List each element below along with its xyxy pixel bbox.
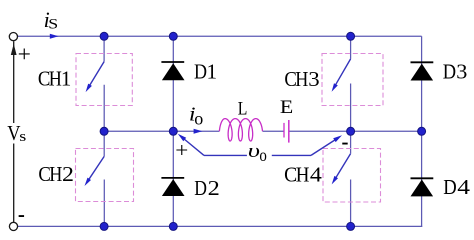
svg-text:4: 4 bbox=[457, 176, 470, 200]
svg-text:H: H bbox=[49, 68, 62, 90]
source line (black) bbox=[13, 41, 15, 222]
CH1/CH2 leg wire bbox=[103, 36, 105, 226]
CH3 switch blade bbox=[334, 59, 350, 87]
CH4 dashed box bbox=[323, 149, 381, 203]
mid rail wire bbox=[104, 130, 422, 132]
v_o right arrow bbox=[311, 139, 336, 155]
CH1 switch blade bbox=[88, 62, 104, 89]
right leg wire (D3/D4) bbox=[421, 36, 423, 226]
svg-text:2: 2 bbox=[208, 176, 220, 199]
svg-text:D: D bbox=[194, 177, 207, 200]
svg-text:2: 2 bbox=[62, 162, 74, 185]
svg-text:-: - bbox=[18, 202, 25, 227]
source E bars bbox=[284, 120, 289, 143]
bottom rail wire bbox=[18, 225, 422, 227]
junction node top CH3 leg bbox=[347, 32, 355, 40]
junction node mid rail D3/D4 leg bbox=[418, 127, 426, 135]
svg-text:3: 3 bbox=[308, 68, 320, 91]
svg-text:H: H bbox=[49, 164, 62, 186]
diode D2 bbox=[161, 178, 184, 196]
svg-text:1: 1 bbox=[207, 60, 218, 84]
svg-text:D: D bbox=[443, 176, 456, 199]
CH2 dashed box bbox=[76, 149, 134, 202]
CH1 dashed box bbox=[76, 54, 132, 106]
top rail wire bbox=[18, 35, 422, 37]
svg-text:L: L bbox=[238, 97, 248, 119]
svg-text:o: o bbox=[194, 108, 203, 128]
diode D3 bbox=[411, 62, 434, 80]
diode D4 bbox=[411, 178, 434, 196]
v_o left arrow bbox=[184, 139, 205, 156]
CH2 switch blade bbox=[87, 157, 104, 183]
svg-text:S: S bbox=[48, 15, 58, 32]
i_S arrow bbox=[50, 34, 59, 39]
svg-text:o: o bbox=[259, 145, 266, 166]
svg-text:s: s bbox=[19, 128, 26, 145]
junction node + output (mid rail, D1/D2) bbox=[169, 127, 177, 135]
junction node top CH leg bbox=[100, 32, 108, 40]
svg-text:E: E bbox=[280, 97, 293, 117]
svg-text:1: 1 bbox=[61, 68, 71, 91]
CH3/CH4 leg wire bbox=[350, 36, 352, 226]
svg-text:4: 4 bbox=[310, 163, 322, 186]
svg-text:H: H bbox=[295, 69, 308, 91]
CH4 switch blade bbox=[334, 154, 350, 181]
svg-text:υ: υ bbox=[248, 140, 260, 161]
inductor L bbox=[219, 119, 262, 141]
junction node A (mid rail, CH1/CH2) bbox=[100, 127, 108, 135]
junction node top D1 leg bbox=[169, 32, 177, 40]
CH3 dashed box bbox=[322, 54, 383, 106]
terminal - bottom left bbox=[9, 222, 17, 230]
svg-text:+: + bbox=[18, 42, 31, 68]
v_o horizontal segments bbox=[204, 154, 311, 156]
i_o arrow bbox=[194, 129, 203, 134]
junction node - output (mid rail, CH3/CH4) bbox=[347, 127, 355, 135]
diode D1 bbox=[161, 62, 184, 80]
svg-text:D: D bbox=[443, 60, 456, 83]
svg-text:H: H bbox=[296, 164, 310, 187]
source arrow up bbox=[11, 44, 17, 55]
junction node bottom D2 leg bbox=[169, 222, 177, 230]
junction node bottom CH leg bbox=[100, 222, 108, 230]
D1/D2 leg wire bbox=[172, 36, 174, 226]
junction node bottom CH4 leg bbox=[347, 222, 355, 230]
svg-text:3: 3 bbox=[456, 60, 467, 83]
svg-text:-: - bbox=[342, 129, 349, 154]
terminal + top left bbox=[9, 33, 17, 41]
svg-text:+: + bbox=[175, 138, 188, 162]
svg-text:D: D bbox=[194, 60, 207, 84]
